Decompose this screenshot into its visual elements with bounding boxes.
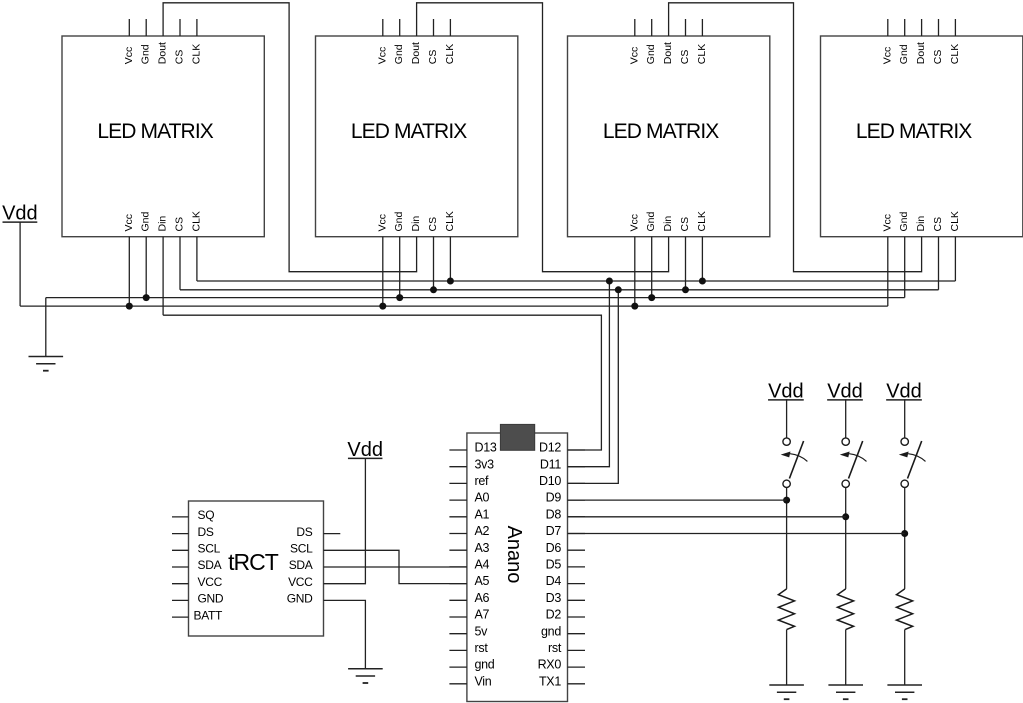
svg-text:CLK: CLK (190, 44, 202, 64)
Anano pin D6 (546, 541, 585, 555)
wire M3 Gnd pin to Gnd bus (651, 237, 653, 298)
wire M1 Dout to M2 Din (daisy chain) (163, 3, 417, 272)
LED matrix module M3 (568, 19, 770, 237)
svg-text:LED MATRIX: LED MATRIX (603, 120, 719, 143)
power flag Vdd (switch 1) (768, 380, 804, 402)
svg-text:Gnd: Gnd (645, 211, 657, 231)
ground (switch 2) (828, 685, 863, 699)
Anano pin gnd (449, 658, 494, 672)
tRCT pin GND (right) (287, 592, 313, 606)
wire M2 Dout to M3 Din (daisy chain) (417, 3, 669, 272)
svg-text:Dout: Dout (410, 42, 422, 64)
wire M4 CS pin to CS bus (938, 237, 940, 290)
svg-text:Dout: Dout (915, 42, 927, 64)
Anano pin D3 (546, 591, 585, 605)
svg-text:CS: CS (932, 217, 944, 232)
svg-text:D10: D10 (539, 474, 561, 488)
svg-text:Dout: Dout (662, 42, 674, 64)
svg-text:TX1: TX1 (539, 674, 561, 688)
RTC module U2 tRCT (189, 501, 324, 636)
svg-text:CLK: CLK (696, 211, 708, 231)
ground (left) (29, 357, 64, 371)
svg-text:Gnd: Gnd (645, 44, 657, 64)
DIN wire from Anano D12 to M1 Din (163, 315, 601, 450)
tRCT pin SDA (left) (172, 558, 222, 572)
svg-text:A7: A7 (475, 608, 490, 622)
ground (switch 3) (887, 685, 922, 699)
Anano pin 5v (449, 624, 488, 638)
Anano pin 3v3 (449, 457, 494, 471)
junction M2 CS (430, 286, 437, 293)
svg-text:D3: D3 (546, 591, 562, 605)
svg-text:D8: D8 (546, 507, 562, 521)
svg-text:tRCT: tRCT (228, 549, 279, 575)
switch SW1 (781, 438, 808, 488)
junction CLK bus tap (606, 278, 613, 285)
svg-text:CS: CS (679, 217, 691, 232)
junction M2 Vcc (379, 303, 386, 310)
svg-text:Din: Din (410, 216, 422, 232)
svg-text:CS: CS (932, 50, 944, 65)
junction M1 Gnd (143, 294, 150, 301)
svg-text:A6: A6 (475, 591, 490, 605)
LED matrix module M4 (821, 19, 1023, 237)
svg-text:LED MATRIX: LED MATRIX (856, 120, 972, 143)
junction M3 CLK (699, 278, 706, 285)
svg-text:A2: A2 (475, 524, 490, 538)
wire resistor R3 to ground (904, 630, 906, 685)
tRCT pin VCC (left) (172, 575, 223, 589)
M4 Dout stub (unconnected) (921, 19, 923, 36)
wire tRCT SCL to Anano A5 (324, 550, 467, 583)
svg-text:A3: A3 (475, 541, 490, 555)
svg-text:CLK: CLK (190, 211, 202, 231)
svg-text:Vcc: Vcc (881, 47, 893, 65)
svg-text:Gnd: Gnd (140, 44, 152, 64)
Anano pin D10 (539, 474, 585, 488)
Anano pin A5 (449, 574, 489, 588)
ground (RTC) (348, 669, 383, 683)
svg-text:CLK: CLK (949, 44, 961, 64)
wire SW2 to resistor R2 (845, 488, 847, 589)
Anano pin A0 (449, 491, 489, 505)
svg-text:D6: D6 (546, 541, 562, 555)
svg-text:Vdd: Vdd (768, 380, 804, 402)
tRCT pin DS (right) (296, 525, 340, 539)
svg-text:VCC: VCC (288, 575, 313, 589)
Anano pin D2 (546, 608, 585, 622)
microcontroller U1 Anano (467, 433, 568, 702)
wire M2 Vcc pin to Vcc bus (382, 237, 384, 306)
wire tRCT VCC to Vdd (324, 458, 366, 583)
Anano pin A3 (449, 541, 489, 555)
Anano pin D4 (546, 574, 585, 588)
svg-text:Anano: Anano (503, 526, 525, 584)
wire Anano D7 to switch column 3 (568, 533, 905, 535)
power flag Vdd (middle) (347, 439, 383, 461)
wire M4 Vcc pin to Vcc bus (887, 237, 889, 306)
Anano pin Vin (449, 674, 491, 688)
wire M4 Gnd pin to Gnd bus (904, 237, 906, 298)
tRCT pin SDA (right) (289, 558, 313, 572)
junction M2 Gnd (396, 294, 403, 301)
junction CS bus tap (615, 286, 622, 293)
switch SW2 (840, 438, 867, 488)
wire M3 Dout to M4 Din (daisy chain) (669, 3, 922, 272)
svg-text:Vdd: Vdd (347, 439, 383, 461)
svg-text:Vcc: Vcc (628, 47, 640, 65)
Anano pin D7 (546, 524, 585, 538)
GND bus wire (46, 297, 905, 299)
svg-text:ref: ref (475, 474, 490, 488)
wire Vdd to switch SW2 (845, 399, 847, 438)
svg-text:Vcc: Vcc (628, 214, 640, 232)
svg-text:Gnd: Gnd (393, 211, 405, 231)
svg-text:SCL: SCL (290, 542, 313, 556)
svg-text:Vdd: Vdd (2, 203, 38, 225)
Anano pin rst (449, 641, 488, 655)
svg-text:D12: D12 (539, 441, 561, 455)
svg-text:CS: CS (679, 50, 691, 65)
svg-text:rst: rst (475, 641, 489, 655)
junction M1 Vcc (126, 303, 133, 310)
svg-text:Vin: Vin (475, 674, 492, 688)
wire M3 Vcc pin to Vcc bus (634, 237, 636, 306)
svg-text:A4: A4 (475, 558, 490, 572)
tRCT pin DS (left) (172, 525, 214, 539)
svg-text:5v: 5v (475, 624, 489, 638)
junction M3 CS (682, 286, 689, 293)
svg-text:Vcc: Vcc (123, 214, 135, 232)
svg-text:CS: CS (174, 217, 186, 232)
svg-text:Din: Din (662, 216, 674, 232)
svg-text:A1: A1 (475, 507, 490, 521)
power flag Vdd (switch 3) (886, 380, 922, 402)
svg-text:SDA: SDA (198, 558, 222, 572)
tRCT pin SCL (right) (290, 542, 313, 556)
wire tRCT SDA to Anano A4 (324, 566, 467, 568)
wire M1 Din pin to DIN line (162, 237, 164, 316)
resistor R1 (778, 589, 794, 630)
LED matrix module M1 (62, 19, 264, 237)
svg-text:BATT: BATT (194, 608, 224, 622)
wire SW3 to resistor R3 (904, 488, 906, 589)
svg-text:Gnd: Gnd (898, 44, 910, 64)
svg-text:SQ: SQ (198, 508, 215, 522)
wire CLK bus to Anano D11 (568, 281, 610, 467)
wire M2 CLK pin to CLK bus (449, 237, 451, 281)
junction D9 line (783, 497, 790, 504)
wire resistor R1 to ground (786, 630, 788, 685)
tRCT pin SQ (left) (172, 508, 214, 522)
svg-text:D7: D7 (546, 524, 562, 538)
wire M2 Gnd pin to Gnd bus (399, 237, 401, 298)
svg-text:SDA: SDA (289, 558, 313, 572)
svg-text:Vcc: Vcc (123, 47, 135, 65)
svg-text:DS: DS (198, 525, 214, 539)
Anano pin D8 (546, 507, 585, 521)
svg-text:D11: D11 (540, 457, 561, 471)
VCC bus wire (20, 305, 888, 307)
Anano pin A2 (449, 524, 489, 538)
svg-text:RX0: RX0 (538, 658, 562, 672)
tRCT pin GND (left) (172, 592, 224, 606)
Anano USB connector (500, 424, 534, 450)
svg-text:rst: rst (548, 641, 562, 655)
svg-text:3v3: 3v3 (475, 457, 495, 471)
junction D8 line (842, 513, 849, 520)
svg-text:Din: Din (157, 216, 169, 232)
junction D7 line (901, 530, 908, 537)
wire M3 CLK pin to CLK bus (701, 237, 703, 281)
svg-text:GND: GND (198, 592, 224, 606)
switch SW3 (899, 438, 926, 488)
svg-text:Gnd: Gnd (140, 211, 152, 231)
Anano pin TX1 (539, 674, 585, 688)
power flag Vdd (switch 2) (827, 380, 863, 402)
svg-text:A0: A0 (475, 491, 490, 505)
Anano pin gnd (541, 624, 585, 638)
wire GND bus to ground (left) (45, 298, 47, 357)
svg-text:Vcc: Vcc (376, 214, 388, 232)
tRCT pin BATT (left) (172, 608, 223, 622)
wire Vdd to switch SW1 (786, 399, 788, 438)
resistor R2 (838, 589, 854, 630)
svg-text:CLK: CLK (444, 44, 456, 64)
Anano pin D13 (449, 441, 496, 455)
power flag Vdd (left) (2, 203, 38, 225)
svg-text:D5: D5 (546, 558, 562, 572)
svg-text:Vcc: Vcc (376, 47, 388, 65)
svg-text:SCL: SCL (198, 542, 221, 556)
wire M4 CLK pin to CLK bus (954, 237, 956, 281)
wire M3 CS pin to CS bus (685, 237, 687, 290)
svg-text:CS: CS (174, 50, 186, 65)
junction M3 Gnd (648, 294, 655, 301)
Anano pin A7 (449, 608, 489, 622)
wire M1 CS pin to CS bus (179, 237, 181, 290)
resistor R3 (897, 589, 913, 630)
wire tRCT GND to ground (324, 600, 366, 668)
Anano pin A6 (449, 591, 489, 605)
svg-text:Gnd: Gnd (898, 211, 910, 231)
svg-text:CS: CS (427, 217, 439, 232)
Anano pin D12 (539, 441, 585, 455)
CLK bus wire (197, 280, 956, 282)
svg-text:Vdd: Vdd (827, 380, 863, 402)
svg-text:D4: D4 (546, 574, 562, 588)
svg-text:VCC: VCC (198, 575, 223, 589)
svg-text:LED MATRIX: LED MATRIX (97, 120, 213, 143)
Anano pin D5 (546, 558, 585, 572)
svg-text:D13: D13 (475, 441, 497, 455)
wire resistor R2 to ground (845, 630, 847, 685)
wire M2 CS pin to CS bus (433, 237, 435, 290)
svg-text:CLK: CLK (949, 211, 961, 231)
svg-text:Din: Din (915, 216, 927, 232)
wire SW1 to resistor R1 (786, 488, 788, 589)
Anano pin D11 (540, 457, 585, 471)
svg-text:Dout: Dout (157, 42, 169, 64)
junction M3 Vcc (631, 303, 638, 310)
Anano pin RX0 (538, 658, 585, 672)
LED matrix module M2 (316, 19, 518, 237)
Anano pin A1 (449, 507, 489, 521)
svg-text:D9: D9 (546, 491, 562, 505)
svg-text:Vdd: Vdd (886, 380, 922, 402)
svg-text:gnd: gnd (541, 624, 561, 638)
wire CS bus to Anano D10 (568, 290, 619, 484)
Anano pin A4 (449, 558, 489, 572)
wire M1 Gnd pin to Gnd bus (145, 237, 147, 298)
svg-text:A5: A5 (475, 574, 490, 588)
wire Vdd to switch SW3 (904, 399, 906, 438)
svg-text:Vcc: Vcc (881, 214, 893, 232)
svg-text:GND: GND (287, 592, 313, 606)
wire Anano D8 to switch column 2 (568, 516, 846, 518)
Anano pin ref (449, 474, 489, 488)
Anano pin rst (548, 641, 585, 655)
ground (switch 1) (769, 685, 804, 699)
svg-text:LED MATRIX: LED MATRIX (351, 120, 467, 143)
tRCT pin SCL (left) (172, 542, 221, 556)
svg-text:CLK: CLK (696, 44, 708, 64)
svg-text:CLK: CLK (444, 211, 456, 231)
svg-text:Gnd: Gnd (393, 44, 405, 64)
svg-text:DS: DS (296, 525, 312, 539)
svg-text:D2: D2 (546, 608, 562, 622)
junction M2 CLK (447, 278, 454, 285)
tRCT pin VCC (right) (288, 575, 313, 589)
CS bus wire (180, 289, 939, 291)
wire M1 Vcc pin to Vcc bus (128, 237, 130, 306)
Anano pin D9 (546, 491, 585, 505)
wire Anano D9 to switch column 1 (568, 499, 787, 501)
wire Vdd to VCC bus (19, 222, 21, 306)
svg-text:CS: CS (427, 50, 439, 65)
svg-text:gnd: gnd (475, 658, 495, 672)
wire M1 CLK pin to CLK bus (196, 237, 198, 281)
